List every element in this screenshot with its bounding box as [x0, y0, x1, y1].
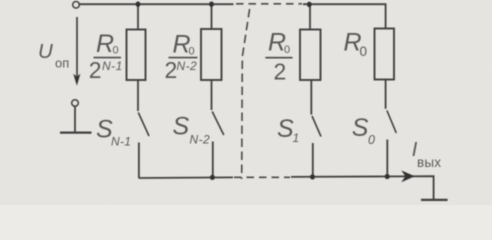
wire: branch 3 below resistor [310, 80, 312, 115]
svg-text:вых: вых [417, 155, 441, 170]
output current arrowhead [401, 170, 415, 182]
svg-text:N-1: N-1 [102, 59, 123, 73]
node: top rail / branch 3 [307, 2, 312, 8]
svg-text:S: S [173, 113, 190, 141]
value label R0/2 [265, 29, 292, 85]
wire: bottom rail right solid segment to output corner [291, 176, 434, 199]
node: top rail / branch 1 [136, 1, 141, 7]
svg-text:0: 0 [284, 44, 290, 56]
switch label S_N-2 [173, 113, 211, 147]
wire: branch 2 switch to bottom rail [212, 142, 214, 178]
svg-text:2: 2 [89, 57, 102, 83]
input terminal (circle, top-left) [73, 2, 80, 9]
svg-text:0: 0 [113, 45, 119, 57]
value label R0/2^(N-2) [165, 31, 198, 84]
wire: branch 4 below resistor [385, 80, 387, 109]
Uop arrowhead [73, 74, 80, 86]
label I_vyx (output current) [412, 139, 441, 170]
wire: branch 1 below resistor [137, 80, 139, 111]
ground bar (output) [421, 199, 448, 201]
value label R0/2^(N-1) [89, 30, 123, 83]
svg-text:S: S [352, 114, 369, 142]
wire: bottom rail left solid segment [139, 176, 233, 179]
wire: branch 1 top drop [137, 4, 139, 29]
wire: top rail left solid segment [80, 3, 234, 5]
ground terminal (lower-left, circle + stem + bar) [72, 100, 79, 107]
switch S_0 blade [387, 111, 396, 134]
wire: branch 2 below resistor [211, 80, 213, 110]
svg-text:0: 0 [189, 46, 195, 58]
dashed break line (omitted branches) [242, 9, 250, 179]
resistor R0/2^(N-2) body [201, 29, 222, 80]
wire: branch 2 top drop [211, 4, 213, 29]
switch S_1 blade [312, 116, 321, 137]
wire: branch 3 top drop [309, 4, 311, 29]
switch S_N-2 blade [212, 112, 224, 136]
resistor R0/2^(N-1) body [127, 30, 146, 81]
label Uop [38, 40, 69, 71]
svg-text:U: U [38, 40, 53, 63]
switch label S_N-1 [96, 116, 131, 149]
wire: branch 3 switch to bottom rail [312, 143, 314, 177]
svg-text:оп: оп [55, 56, 69, 71]
svg-text:1: 1 [293, 131, 300, 145]
svg-text:N-2: N-2 [190, 132, 211, 146]
svg-text:2: 2 [274, 59, 287, 85]
svg-text:0: 0 [360, 44, 368, 59]
value label R0 (branch 4) [344, 29, 368, 59]
wire: branch 4 switch to bottom rail [386, 140, 388, 177]
node: top rail / branch 2 [209, 1, 214, 7]
svg-text:0: 0 [368, 133, 375, 147]
resistor R0 body (branch 4) [375, 29, 395, 80]
switch label S_1 [277, 115, 299, 145]
switch S_N-1 blade [138, 113, 149, 137]
svg-text:R: R [96, 30, 114, 58]
wire: bottom rail dashed segment [234, 176, 290, 178]
resistor R0/2 body [300, 30, 321, 81]
Uop arrow shaft [76, 17, 78, 81]
node: bottom rail / branch 4 [385, 174, 390, 179]
svg-text:S: S [277, 115, 294, 143]
wire: top rail right solid segment with corner into branch 4 [303, 4, 386, 28]
switch label S_0 [352, 114, 375, 147]
svg-text:2: 2 [165, 57, 178, 83]
node: bottom rail / branch 2 [210, 175, 215, 180]
svg-text:N-1: N-1 [111, 134, 131, 148]
svg-text:N-2: N-2 [177, 59, 198, 73]
node: bottom rail / branch 3 [310, 174, 315, 179]
wire: branch 1 switch to bottom rail [138, 143, 140, 179]
wire: top rail dashed continuation [236, 3, 302, 5]
